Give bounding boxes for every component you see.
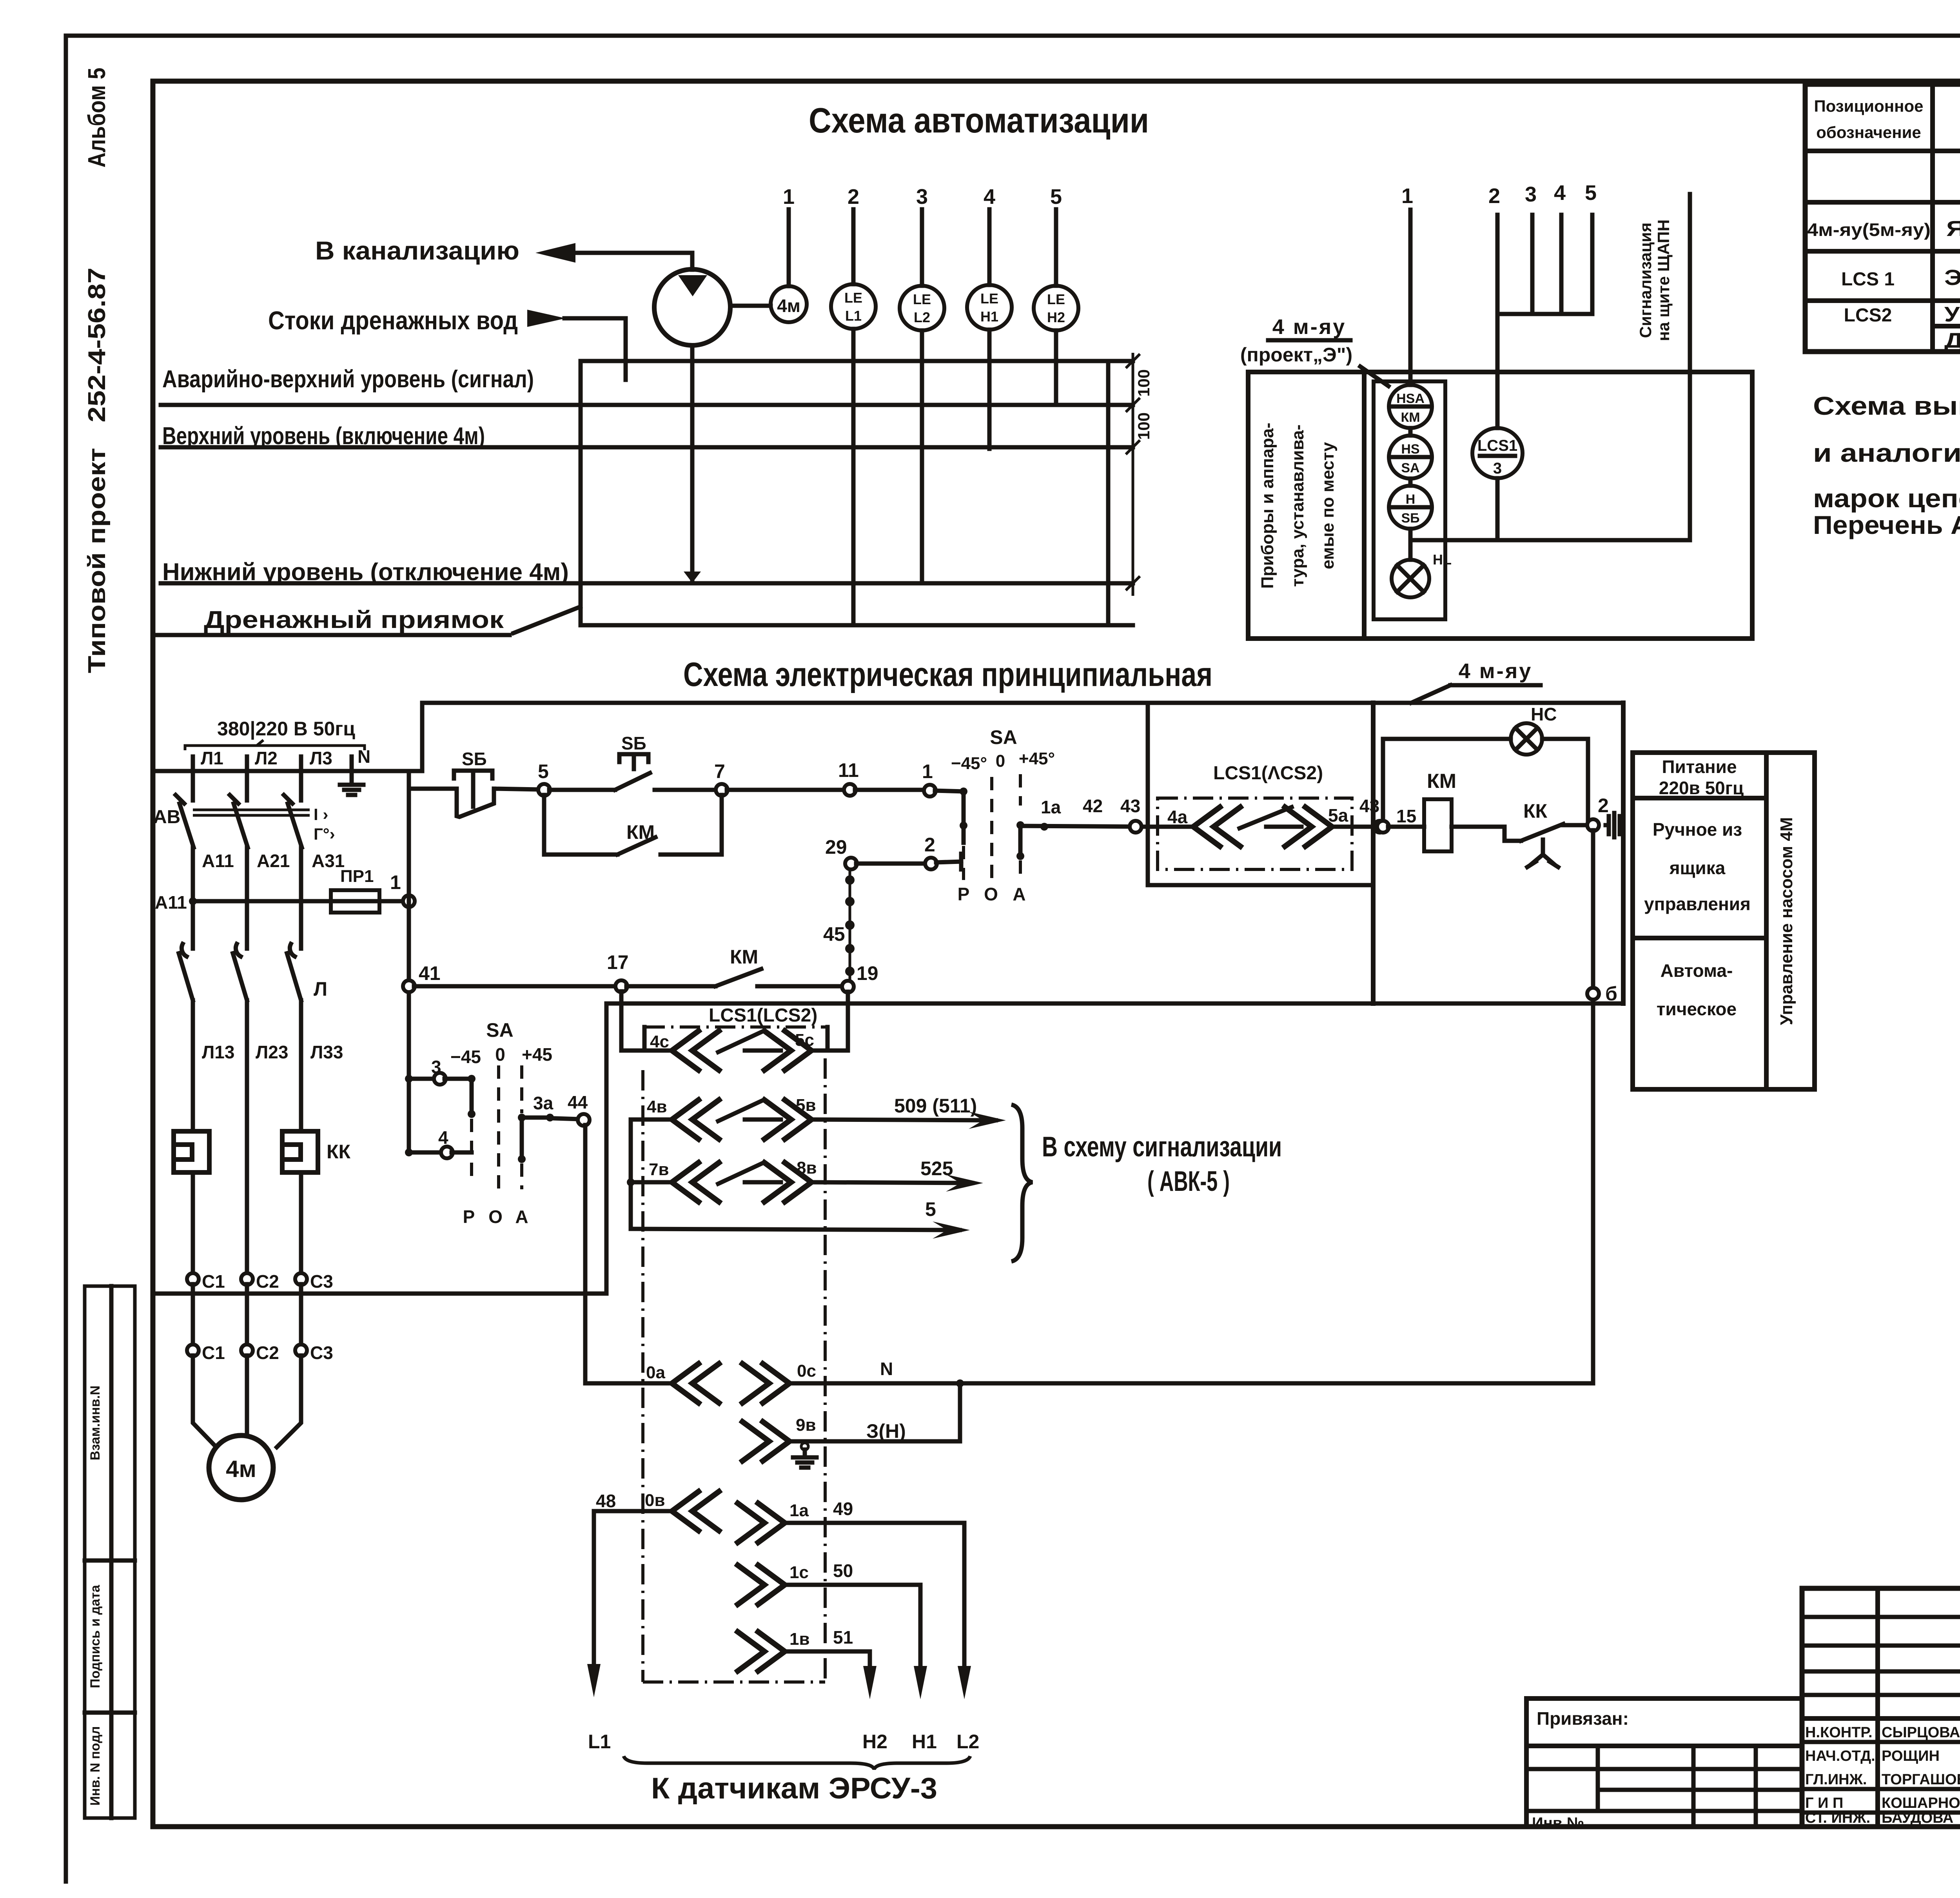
wire LCS1 down [1495,478,1500,540]
wires to terminals [193,1131,301,1274]
svg-text:43: 43 [1120,796,1140,816]
contactor coil KM [1424,799,1452,851]
svg-text:SA: SA [486,1019,513,1041]
row 9v З(N) [742,1422,789,1461]
svg-text:О: О [488,1207,503,1227]
KM self-holding contact [544,795,617,855]
svg-text:0а: 0а [646,1363,665,1382]
svg-text:1: 1 [922,760,933,782]
node б [1587,988,1599,1000]
lamp loop wires [1383,739,1511,822]
level line верхний [161,445,1133,450]
privyazan table [1526,1698,1802,1827]
svg-text:НАЧ.ОТД.: НАЧ.ОТД. [1805,1748,1875,1764]
svg-text:Взам.инв.N: Взам.инв.N [88,1386,103,1461]
node 29 [845,858,857,869]
svg-text:L2: L2 [956,1731,979,1753]
svg-text:1: 1 [390,871,401,893]
wires between terminal rows [193,1284,301,1345]
electrode H2 [1054,330,1058,404]
svg-text:управления: управления [1644,894,1751,914]
SA right O column [990,777,993,878]
svg-text:Ящик управления: Ящик управления [1946,216,1960,241]
svg-text:Схема выполнена для насоса: Схема выполнена для насоса 4м [1813,391,1960,420]
svg-text:ГЛ.ИНЖ.: ГЛ.ИНЖ. [1805,1771,1867,1788]
thin rows top-left [1802,1615,1960,1619]
thermal heater KK pole3 [282,1131,318,1172]
stem 2 [1495,215,1500,428]
svg-text:К датчикам ЭРСУ-3: К датчикам ЭРСУ-3 [651,1772,937,1805]
svg-text:Л2: Л2 [255,748,278,768]
suction intake triangle [684,572,701,583]
wire [1408,529,1413,560]
svg-text:5: 5 [538,760,549,782]
wire [1408,479,1413,486]
long bottom wire / box bottom [606,1002,1623,1006]
svg-text:( АВК-5 ): ( АВК-5 ) [1147,1166,1230,1197]
parts table grid [1805,84,1960,352]
inlet pipe [564,318,626,380]
svg-text:H1: H1 [980,308,998,325]
svg-text:+45: +45 [522,1044,552,1065]
stem 4 [987,209,992,285]
supply bracket [185,740,365,750]
row 1v 51 [738,1632,785,1671]
svg-text:БАУДОВА: БАУДОВА [1882,1810,1953,1826]
svg-text:Г°›: Г°› [314,825,335,843]
svg-text:Уровней с тремя электродным: Уровней с тремя электродными [1944,303,1960,326]
stem 5 [1590,215,1595,314]
wire to SA [935,791,964,791]
svg-text:КМ: КМ [1427,770,1456,793]
outer border left [64,36,68,1882]
stem 3 [920,209,924,286]
row 1a 49 [738,1503,785,1542]
node 11 [844,784,856,796]
title block columns left part [1875,1588,1880,1827]
svg-text:тическое: тическое [1657,999,1737,1019]
dimension line [1132,353,1134,596]
breaker poles [176,771,310,949]
row 1c 50 [738,1565,785,1604]
svg-text:1: 1 [783,185,795,209]
ground at 9v [801,1443,808,1450]
svg-text:КК: КК [327,1141,351,1163]
svg-text:РОЩИН: РОЩИН [1882,1748,1940,1764]
svg-text:5в: 5в [796,1096,816,1115]
svg-text:8в: 8в [797,1158,817,1178]
svg-text:SA: SA [990,726,1017,748]
svg-text:220в 50гц: 220в 50гц [1659,778,1744,798]
svg-text:ТОРГАШОВ: ТОРГАШОВ [1882,1771,1960,1788]
svg-text:2: 2 [924,834,935,856]
node 43 right [1374,821,1386,833]
svg-text:АВ: АВ [153,807,180,827]
svg-text:HS: HS [1401,442,1419,457]
svg-text:А11: А11 [202,851,234,871]
leader to box [1360,367,1388,386]
svg-text:−45: −45 [450,1047,481,1067]
svg-text:5: 5 [1585,181,1597,205]
svg-text:L2: L2 [914,309,930,325]
svg-text:ящика: ящика [1669,858,1726,878]
lamp HC [1511,723,1542,755]
svg-text:+45°: +45° [1019,749,1055,768]
svg-text:С2: С2 [256,1271,279,1292]
motor feeder wires [193,1355,301,1447]
phase stubs [193,757,352,771]
title block outer [1802,1588,1960,1827]
KM line contact [626,984,715,989]
instrument circle LE H1 [967,285,1012,330]
wire 7 to 11 [727,788,845,792]
svg-text:LE: LE [844,290,862,306]
top rail [422,701,1623,705]
box Приборы по месту [1248,372,1752,639]
svg-text:0с: 0с [797,1361,816,1381]
svg-text:4а: 4а [1167,807,1188,827]
box left edge [1371,703,1376,1003]
svg-text:15: 15 [1396,806,1416,826]
pump triangle [678,275,707,296]
svg-text:Л33: Л33 [310,1042,343,1062]
node19 leg down [846,992,850,1051]
svg-text:1а: 1а [1041,797,1061,817]
svg-text:5: 5 [1050,185,1062,209]
svg-text:LCS 1: LCS 1 [1841,269,1895,290]
svg-text:1а: 1а [789,1501,809,1520]
arrow L1 down [587,1664,601,1697]
svg-text:Инв.№: Инв.№ [1532,1815,1584,1832]
svg-text:7: 7 [714,760,725,782]
circle LCS1/3 [1472,428,1523,478]
svg-text:А31: А31 [312,851,345,871]
level line аварийный [161,403,1133,407]
inlet arrow [527,310,566,327]
svg-text:I ›: I › [314,805,328,824]
terminal bars [1606,813,1620,837]
pump 4M circle [654,269,730,345]
row 4v-5v [631,1118,672,1122]
svg-text:4 м-яу: 4 м-яу [1459,659,1533,683]
svg-text:КК: КК [1523,800,1548,822]
wire between circles [1408,428,1413,435]
svg-text:41: 41 [419,962,441,984]
svg-text:Верхний уровень (включение 4м): Верхний уровень (включение 4м) [162,423,485,450]
node 1 [403,895,415,907]
svg-text:Дренажный приямок: Дренажный приямок [204,606,504,633]
svg-text:19: 19 [857,962,878,984]
node 17 [615,980,627,992]
svg-text:SБ: SБ [462,749,487,769]
tank left wall [579,361,583,625]
tank bottom [581,623,1133,628]
svg-text:Р: Р [463,1207,475,1227]
svg-text:2: 2 [848,185,859,209]
svg-text:Позиционное: Позиционное [1814,97,1923,115]
contactor contact pole 2 [233,953,247,1131]
row 5 [631,1229,960,1230]
row 0a-0c N [585,1381,671,1386]
svg-text:на щите ЩАПН: на щите ЩАПН [1654,220,1673,341]
pump suction pipe [690,345,695,580]
N ground [350,771,354,784]
stop button SB wire [409,787,457,791]
SA left top row [409,1077,435,1081]
left control rail [407,771,411,1152]
svg-text:0в: 0в [645,1491,665,1510]
electrode L2 [920,330,924,583]
svg-text:Схема автоматизации: Схема автоматизации [809,101,1149,140]
SA left: rail junction top [405,1075,413,1083]
svg-text:48: 48 [596,1491,616,1511]
node 2 [925,858,937,869]
svg-text:Н.КОНТР.: Н.КОНТР. [1805,1724,1873,1741]
svg-text:З(Н): З(Н) [866,1420,906,1442]
svg-text:LE: LE [913,291,931,307]
inner dash-dot box [1158,798,1352,869]
svg-text:5а: 5а [1328,805,1348,826]
terminals C1 C2 C3 row1 [187,1273,199,1285]
electrode H1 [987,330,992,449]
svg-text:0: 0 [996,751,1005,771]
svg-text:Питание: Питание [1662,757,1737,777]
contactor contact pole 1 [179,953,193,1131]
SA left bottom row [405,1149,413,1156]
node 43 left [1130,821,1142,833]
contactor contact pole 3 [287,953,301,1131]
wire 29 to 2 [856,862,926,866]
thermal heater KK pole1 [174,1131,209,1172]
dim ticks [1126,354,1140,590]
svg-text:LCS2: LCS2 [1844,305,1892,326]
svg-text:КМ: КМ [626,821,655,843]
svg-text:N: N [358,746,370,767]
svg-text:1с: 1с [789,1563,809,1582]
svg-text:Л1: Л1 [201,748,223,768]
svg-text:Управление насосом 4М: Управление насосом 4М [1777,817,1796,1025]
SA left P column [470,1079,474,1114]
arrow H1 down [914,1666,927,1699]
node 2 [1587,819,1599,831]
svg-text:О: О [984,884,998,904]
svg-text:Подпись и дата: Подпись и дата [88,1584,103,1688]
contact 4c-5c [644,1049,672,1053]
svg-text:ПР1: ПР1 [340,867,374,886]
svg-text:Л13: Л13 [202,1042,234,1062]
svg-text:марок цепей , как указано в: марок цепей , как указано в скобках . [1813,484,1960,513]
inner YU box [1374,381,1445,619]
svg-text:4: 4 [438,1127,448,1148]
pump discharge pipe [573,253,692,270]
node 7 [716,784,728,796]
stem 1 to box [1408,210,1413,385]
svg-text:3: 3 [916,185,928,209]
svg-text:L1: L1 [588,1731,611,1753]
svg-text:Л3: Л3 [310,748,332,768]
svg-text:4с: 4с [650,1032,669,1051]
svg-text:Схема электрическая принципиа: Схема электрическая принципиальная [683,656,1212,693]
svg-text:SБ: SБ [1401,511,1419,526]
horizontal signal wire [1410,538,1690,543]
svg-text:Типовой проект: Типовой проект [83,448,111,673]
svg-text:5с: 5с [795,1031,814,1050]
svg-text:Нижний уровень (отключение 4м): Нижний уровень (отключение 4м) [162,559,569,586]
wire 2 to P column [936,854,961,869]
svg-text:29: 29 [825,836,847,858]
svg-text:В канализацию: В канализацию [315,236,519,265]
svg-text:Сигнализация: Сигнализация [1636,223,1655,338]
svg-text:LCS1: LCS1 [1477,437,1517,454]
svg-text:LE: LE [1047,291,1065,307]
breaker pole 2 [234,771,248,949]
svg-text:5: 5 [925,1198,936,1220]
svg-text:Ручное из: Ручное из [1653,819,1742,840]
svg-text:11: 11 [838,759,859,781]
margin mini table [85,1286,135,1818]
svg-text:В схему сигнализации: В схему сигнализации [1042,1131,1282,1163]
svg-text:HL: HL [1433,552,1452,568]
node 43b [1377,821,1389,833]
svg-text:HSA: HSA [1396,391,1425,406]
svg-text:3: 3 [431,1057,441,1077]
box LCS contact 4a-5a [1148,703,1373,885]
dash-dot vertical right [824,1058,827,1682]
svg-text:SA: SA [1401,461,1419,475]
node 41 [403,980,415,992]
wire 11 to 1 [855,788,925,792]
svg-text:А: А [1013,884,1025,904]
node 1 [924,785,936,797]
node 5 [538,784,550,796]
wire A column to LCS box [1020,826,1148,827]
motor 4M [209,1435,273,1500]
breaker pole 3 [288,771,302,949]
svg-text:(проект„Э"): (проект„Э") [1240,344,1352,366]
svg-text:4м: 4м [226,1456,256,1482]
breaker linkage [193,809,310,811]
svg-text:А11: А11 [155,892,187,913]
start button SB wire [549,788,615,792]
svg-text:КМ: КМ [730,946,758,968]
wire 45 with bead dots [849,869,851,982]
svg-text:Привязан:: Привязан: [1537,1708,1629,1729]
svg-text:252-4-56.87: 252-4-56.87 [83,268,111,423]
circle H/SB [1389,486,1432,529]
svg-text:2: 2 [1488,184,1500,208]
instrument circle LE L2 [900,286,944,330]
terminals C1 C2 C3 row2 [187,1345,199,1356]
dash-dot bottom [643,1680,825,1684]
svg-text:Перечень Аппаратуры дан дл: Перечень Аппаратуры дан для 2 насосов. [1813,510,1960,539]
stem 2 [851,209,856,284]
svg-text:Инв. N подл: Инв. N подл [88,1726,103,1806]
thermal contact KK [1521,824,1563,841]
left bracket for 4v/7v/5 rows [629,1120,633,1229]
tank top line [581,359,1133,363]
svg-text:4м: 4м [777,296,800,316]
fuse branch wire [193,899,409,904]
vertical node2 down [1591,830,1595,1383]
svg-text:43: 43 [1359,796,1379,816]
svg-text:17: 17 [607,951,629,973]
arrow L2 down [958,1666,971,1699]
leader to tank [514,607,580,633]
svg-text:тура, устанавлива-: тура, устанавлива- [1288,425,1307,587]
SA right P column [960,788,967,795]
svg-text:Автома-: Автома- [1661,960,1733,981]
svg-text:1в: 1в [789,1629,810,1649]
svg-text:КМ: КМ [1401,410,1420,425]
svg-text:Аварийно-верхний уровень (сигн: Аварийно-верхний уровень (сигнал) [162,366,534,393]
discharge arrow [535,243,575,263]
underbrace к датчикам [624,1756,970,1769]
SA right A column [1019,774,1022,806]
svg-text:1: 1 [1401,184,1413,208]
svg-text:LCS1(ΛCS2): LCS1(ΛCS2) [1213,763,1323,784]
signal vertical line [1688,194,1692,540]
svg-text:С1: С1 [202,1343,225,1363]
svg-text:LE: LE [980,290,998,307]
svg-text:А21: А21 [257,851,290,871]
circle HSA/KM [1389,385,1432,428]
svg-text:СТ. ИНЖ.: СТ. ИНЖ. [1805,1810,1870,1826]
svg-text:и аналогична для насоса 5м: и аналогична для насоса 5м с изменением [1813,438,1960,467]
SA left O column [497,1065,500,1189]
bus line [153,769,422,773]
wire 3a 44 [527,1116,545,1120]
svg-text:4: 4 [984,185,995,209]
svg-text:−45°: −45° [951,754,987,773]
svg-text:С3: С3 [310,1271,333,1292]
svg-text:H2: H2 [1047,309,1065,325]
stem 3 [1530,215,1535,314]
outer border top [66,34,1960,38]
svg-text:N: N [880,1359,893,1379]
svg-text:3а: 3а [533,1093,554,1113]
svg-text:Альбом 5: Альбом 5 [83,68,111,168]
svg-text:44: 44 [568,1092,588,1112]
svg-text:525: 525 [920,1158,953,1179]
svg-text:42: 42 [1083,796,1103,816]
svg-text:Стоки дренажных вод: Стоки дренажных вод [268,306,518,335]
fuse ПР1 [331,890,379,913]
SA left A column [520,1065,523,1113]
stem 5 [1054,209,1058,286]
wire coil to KK [1452,827,1521,841]
svg-text:Н1: Н1 [912,1731,937,1753]
svg-text:380|220 В 50гц: 380|220 В 50гц [217,718,355,740]
wire 41 to 17 [414,984,616,989]
riser to top rail [420,703,425,771]
wire 44 down [583,1125,588,1383]
svg-text:45: 45 [823,923,845,945]
svg-text:Р: Р [958,884,970,904]
svg-text:4: 4 [1554,181,1566,205]
instrument circle 4M [771,286,807,322]
svg-text:50: 50 [833,1560,853,1581]
svg-text:КОШАРНОВА: КОШАРНОВА [1882,1795,1960,1811]
wire KK to node 2 [1562,823,1588,827]
svg-text:емые по месту: емые по месту [1318,442,1338,569]
svg-text:100: 100 [1134,369,1153,397]
svg-text:Г И П: Г И П [1805,1795,1843,1811]
svg-text:49: 49 [833,1499,853,1519]
svg-text:Датчиками Р≤25кгс/см² t≤80°с: Датчиками Р≤25кгс/см² t≤80°с ЭРСУ-3 [1944,329,1960,352]
svg-text:С3: С3 [310,1343,333,1363]
svg-text:СЫРЦОВА: СЫРЦОВА [1882,1724,1960,1741]
svg-text:4 м-яу: 4 м-яу [1272,315,1347,339]
